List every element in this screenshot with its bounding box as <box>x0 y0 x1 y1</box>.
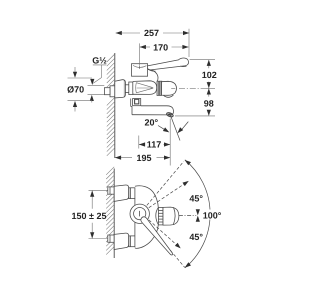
swing arc 100 deg <box>185 160 210 268</box>
cap axis dashed centerline <box>179 87 206 89</box>
aerator neck (front view) <box>156 208 159 225</box>
svg-text:G½: G½ <box>92 56 107 66</box>
svg-text:102: 102 <box>202 70 217 80</box>
dim 150 +/- 25 <box>89 190 108 238</box>
wall line (front view) <box>113 169 115 259</box>
bottom union ring <box>129 236 135 247</box>
svg-text:257: 257 <box>144 28 159 38</box>
white halo for 100 deg <box>202 210 223 220</box>
end cap (top view) <box>162 81 177 95</box>
spout column with notch <box>131 99 132 115</box>
svg-text:45°: 45° <box>189 194 203 204</box>
swing ray +50 deg <box>147 161 184 205</box>
dim 170 <box>140 43 189 65</box>
dim 257 <box>116 29 190 57</box>
swing ray +34 deg with arrow <box>149 183 186 208</box>
G1/2 nipple through wall <box>110 86 115 97</box>
bottom union escutcheon <box>114 233 128 249</box>
lever hook inner line <box>148 66 187 71</box>
lever boss outer circle <box>130 204 149 223</box>
aerator ribbed ring (front view) <box>158 208 163 225</box>
svg-text:170: 170 <box>153 42 168 52</box>
dim diameter 70 <box>68 67 93 112</box>
20 degree leader right <box>181 122 188 131</box>
retainer ring (top view) <box>129 82 133 95</box>
svg-text:20°: 20° <box>144 117 158 127</box>
cartridge pod body <box>133 81 157 95</box>
20 degree outlet axis line <box>170 114 180 141</box>
dim G1/2 leader <box>88 65 107 103</box>
pod cone interior lines <box>136 83 153 93</box>
svg-text:98: 98 <box>204 99 214 109</box>
dim 102 and 98 <box>175 60 215 116</box>
wall hatching (top view) <box>107 54 115 156</box>
body (front view) <box>135 186 158 249</box>
lever ball joint <box>148 69 158 81</box>
bell-to-ring step lines <box>125 84 128 86</box>
lever neck tick <box>139 66 141 69</box>
wall hatching (front view) <box>106 167 114 255</box>
dim 117 <box>139 119 170 166</box>
horizontal swing axis dashes <box>179 215 196 217</box>
lever neck joint curve <box>133 65 146 67</box>
end cap bottom curve <box>163 95 173 97</box>
escutcheon bell inner edge <box>123 80 125 97</box>
top union ring <box>129 188 135 199</box>
dim 195 <box>115 157 170 159</box>
svg-text:Ø70: Ø70 <box>67 84 84 94</box>
end cap center tick <box>171 87 175 89</box>
swing ray -34 deg with arrow <box>149 220 177 246</box>
svg-text:100°: 100° <box>203 211 222 221</box>
column notch <box>135 99 139 104</box>
20 degree leader left <box>158 126 165 130</box>
top union escutcheon <box>114 185 128 201</box>
body back plate edge <box>134 199 136 236</box>
wall line (top view) <box>114 53 116 158</box>
svg-text:45°: 45° <box>189 232 203 242</box>
knurled ring (top view) <box>157 81 162 95</box>
spout outlet aerator <box>166 112 174 118</box>
escutcheon bell (top view) <box>115 80 126 98</box>
100 deg double arrow <box>196 209 200 215</box>
lever neck block <box>132 64 148 76</box>
top union nut <box>108 187 114 194</box>
lever blade (top view) <box>148 58 189 70</box>
bottom union nut <box>108 235 114 242</box>
lever boss inner circle <box>134 208 146 220</box>
svg-text:117: 117 <box>147 140 162 150</box>
aerator cap (front view) <box>163 207 179 225</box>
svg-text:150 ± 25: 150 ± 25 <box>72 211 107 221</box>
lever blade (front view) <box>141 217 173 255</box>
swing ray -50 deg <box>147 222 185 267</box>
svg-text:195: 195 <box>136 153 151 163</box>
spout (top view) <box>132 106 174 115</box>
